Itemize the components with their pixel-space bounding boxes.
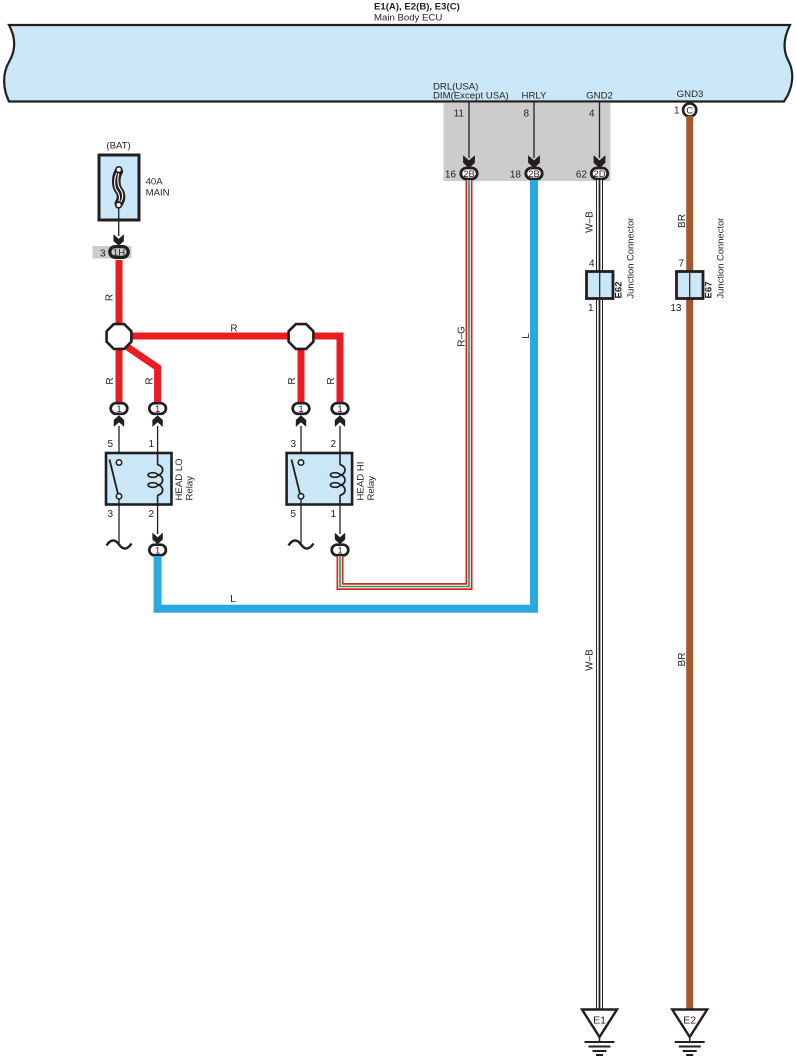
svg-text:R: R: [105, 294, 116, 301]
svg-text:2: 2: [330, 439, 336, 450]
ground E1: [582, 1010, 617, 1056]
relay HI pin1 lead: [339, 505, 341, 534]
relay LO pin5 arrow up: [114, 415, 124, 427]
relay HI pin5 lead: [300, 505, 302, 543]
ECU pin 11 lead wire: [468, 102, 470, 158]
relay LO pin3 squiggle: [107, 540, 132, 548]
svg-text:GND3: GND3: [677, 89, 704, 100]
svg-text:Main Body ECU: Main Body ECU: [374, 13, 442, 24]
svg-text:5: 5: [107, 439, 113, 450]
wire R junction B to relay HI pin 2: [301, 336, 340, 402]
svg-text:E2: E2: [683, 1015, 696, 1027]
svg-text:7: 7: [678, 259, 684, 270]
svg-text:1: 1: [337, 404, 342, 415]
svg-text:1: 1: [674, 106, 680, 117]
connector 1H gray strip: [93, 246, 132, 259]
relay LO switch: [110, 460, 122, 505]
wire R junction A to relay LO pin 5: [116, 337, 123, 403]
relay HI pin1 arrow down: [335, 533, 345, 545]
fuse 40A MAIN box: [99, 155, 139, 220]
svg-text:Relay: Relay: [366, 476, 377, 501]
svg-text:Relay: Relay: [185, 476, 196, 501]
connector 1H oval: [110, 247, 128, 258]
relay HI pin5 squiggle: [289, 540, 314, 548]
relay HEAD HI box: [287, 453, 353, 505]
svg-text:1: 1: [330, 509, 336, 520]
Main Body ECU band: [4, 25, 792, 102]
wire W-B (GND2 to E1 ground): [596, 180, 603, 1010]
svg-text:E1: E1: [593, 1015, 606, 1027]
fuse lead wire: [118, 207, 120, 236]
relay HI pin3 connector oval 1: [293, 403, 310, 414]
svg-text:Junction Connector: Junction Connector: [625, 218, 636, 299]
svg-text:R: R: [326, 377, 337, 384]
svg-text:HRLY: HRLY: [522, 91, 547, 102]
svg-text:2B: 2B: [463, 169, 475, 180]
svg-text:2: 2: [148, 509, 154, 520]
ECU pin 8 lead wire: [533, 102, 535, 158]
svg-text:W–B: W–B: [585, 211, 596, 233]
svg-text:E62: E62: [614, 281, 625, 298]
svg-text:W–B: W–B: [585, 649, 596, 671]
svg-text:13: 13: [670, 303, 682, 314]
relay HI pin1 oval 1: [332, 545, 349, 556]
relay LO pin3 lead: [118, 505, 120, 543]
connector 2B pin 16 oval: [461, 168, 477, 179]
connector 2D pin 62 oval: [591, 168, 607, 179]
svg-text:1: 1: [588, 303, 594, 314]
svg-text:GND2: GND2: [586, 91, 613, 102]
svg-text:BR: BR: [677, 653, 688, 667]
ECU pin 4 arrow: [594, 155, 606, 168]
relay LO pin5 connector oval 1: [111, 403, 128, 414]
junction octagon B: [289, 324, 314, 349]
svg-text:18: 18: [510, 170, 522, 181]
svg-text:R: R: [105, 377, 116, 384]
relay LO coil: [148, 453, 163, 505]
relay LO pin2 lead: [157, 505, 159, 534]
svg-text:4: 4: [589, 259, 595, 270]
relay LO pin1 lead: [157, 426, 159, 453]
relay HI pin2 connector oval 1: [332, 403, 349, 414]
svg-text:R: R: [230, 324, 237, 335]
relay LO pin2 arrow down: [152, 533, 162, 545]
relay HI pin3 lead: [300, 426, 302, 453]
relay HEAD LO box: [106, 453, 172, 505]
svg-text:R: R: [144, 377, 155, 384]
relay HI pin2 arrow up: [335, 415, 345, 427]
svg-text:2D: 2D: [593, 169, 605, 180]
svg-text:40A: 40A: [146, 177, 164, 188]
ECU pin 1 connector C circle: [683, 103, 696, 116]
svg-text:L: L: [230, 594, 236, 605]
svg-text:8: 8: [523, 109, 529, 120]
wire R junction A to junction B: [119, 333, 301, 340]
svg-text:Junction Connector: Junction Connector: [715, 218, 726, 299]
wire R from 1H to junction: [116, 260, 123, 337]
relay LO pin2 oval 1: [149, 545, 166, 556]
junction octagon A: [107, 324, 132, 349]
svg-text:R: R: [287, 377, 298, 384]
connector gray box: [444, 103, 611, 182]
relay HI pin3 arrow up: [296, 415, 306, 427]
svg-text:11: 11: [454, 109, 465, 120]
svg-text:MAIN: MAIN: [146, 188, 170, 199]
svg-text:2B: 2B: [528, 169, 540, 180]
relay HI switch: [292, 460, 304, 505]
svg-text:1: 1: [155, 404, 160, 415]
svg-text:3: 3: [107, 509, 113, 520]
fuse element: [115, 167, 123, 208]
relay LO pin5 lead: [118, 426, 120, 453]
relay LO pin1 connector oval 1: [149, 403, 166, 414]
ECU pin 8 arrow: [528, 155, 540, 168]
wire R junction B to relay HI pin 3: [298, 337, 305, 403]
wire R junction A to relay LO pin 1: [123, 344, 158, 402]
fuse lead arrow: [114, 234, 124, 246]
svg-text:BR: BR: [677, 214, 688, 228]
svg-text:HEAD LO: HEAD LO: [174, 458, 185, 500]
svg-text:1: 1: [155, 546, 160, 557]
svg-text:E67: E67: [704, 281, 715, 298]
ECU pin 4 lead wire: [599, 102, 601, 158]
svg-text:E1(A), E2(B), E3(C): E1(A), E2(B), E3(C): [374, 2, 460, 13]
junction connector E62 box: [587, 272, 614, 299]
svg-text:HEAD HI: HEAD HI: [356, 462, 367, 501]
svg-text:1: 1: [298, 404, 303, 415]
svg-text:R–G: R–G: [457, 326, 468, 347]
svg-text:3: 3: [290, 439, 296, 450]
wire L (blue) relay LO pin2 to ECU HRLY: [158, 180, 534, 609]
relay HI pin2 lead: [339, 426, 341, 453]
svg-text:(BAT): (BAT): [106, 141, 130, 152]
relay HI coil: [330, 453, 345, 505]
wire BR (GND3 to E2 ground): [686, 116, 693, 1010]
svg-text:C: C: [686, 106, 693, 117]
svg-text:5: 5: [290, 509, 296, 520]
svg-text:4: 4: [589, 109, 595, 120]
ground E2: [672, 1010, 707, 1056]
ECU pin 11 arrow: [463, 155, 475, 168]
connector 2B pin 18 oval: [526, 168, 542, 179]
wire R-G relay HI pin1 to ECU DRL: [340, 180, 469, 587]
svg-text:1: 1: [148, 439, 154, 450]
svg-text:1: 1: [337, 546, 342, 557]
svg-text:3: 3: [100, 249, 106, 260]
relay LO pin1 arrow up: [152, 415, 162, 427]
svg-text:L: L: [521, 333, 532, 339]
svg-text:16: 16: [445, 170, 457, 181]
svg-text:1: 1: [116, 404, 121, 415]
svg-text:1H: 1H: [113, 248, 125, 259]
svg-text:DIM(Except USA): DIM(Except USA): [433, 91, 509, 102]
junction connector E67 box: [677, 272, 704, 299]
svg-text:62: 62: [576, 170, 588, 181]
